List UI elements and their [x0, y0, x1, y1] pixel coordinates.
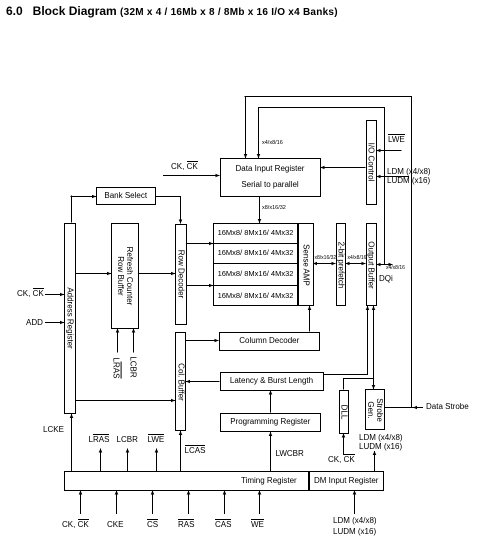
label: LWE above Timing Register: [148, 436, 165, 444]
label: LCBR rotated under Refresh Counter: [126, 354, 140, 380]
label: LCAS: [185, 447, 206, 455]
wire: Address Register to Bank Select: [71, 196, 73, 223]
wire: Programming Register to Latency: [270, 391, 272, 413]
label: LUDM (x16) at I/O Control: [387, 177, 430, 185]
label: CK,CK at Data Input Register: [171, 163, 198, 171]
wire: Col. Buffer to Column Decoder: [186, 340, 219, 342]
label: x8/x16/32 between Sense AMP and prefetch: [315, 256, 337, 261]
wire: 2-bit prefetch to Output Buffer (bidirectional): [346, 263, 366, 265]
wire: LWCBR into Programming Register: [270, 432, 272, 471]
wire: WE into Timing Register: [259, 491, 261, 515]
wire: ADD into Address Register: [45, 322, 64, 324]
wire: Row Decoder to bank row 1: [187, 243, 213, 245]
label: LRAS rotated under Refresh Counter: [109, 354, 123, 382]
wire: CAS into Timing Register: [224, 491, 226, 515]
wire: LWE stub into I/O Control: [377, 150, 402, 152]
wire: Refresh Counter to Row Decoder: [139, 273, 175, 275]
wire: CKE into Timing Register: [116, 491, 118, 515]
label: CS bottom: [147, 521, 158, 529]
wire: DLL to Strobe Gen and Output Buffer: [343, 379, 345, 390]
wire: Strobe Gen to Data Strobe pad: [385, 407, 424, 409]
label: x8/x16/32 below Data Input Register: [262, 206, 286, 212]
wire: LRAS stub above Timing Register: [100, 449, 102, 472]
label: LWE at I/O Control: [388, 136, 405, 144]
wire: I/O Control to Data Input Register: [321, 167, 366, 169]
label: LDM (x4/x8) bottom: [333, 517, 377, 525]
wire: Row Decoder to bank row 3: [187, 285, 213, 287]
wire: Bank Select to Row Decoder: [156, 196, 182, 198]
wire: Data Strobe top loop (outer): [245, 97, 247, 159]
box: I/O Control: [366, 120, 377, 205]
wire: Column Decoder to Sense AMP: [309, 306, 311, 332]
box: Latency & Burst Length: [220, 372, 324, 391]
wire: RAS into Timing Register: [188, 491, 190, 515]
label: LUDM (x16) at Strobe Gen: [359, 443, 402, 451]
label: LCBR above Timing Register: [117, 436, 138, 444]
label: Data Strobe: [426, 403, 469, 411]
box: memory bank array (4 banks): [213, 223, 298, 306]
box: Refresh Counter / Row Buffer: [111, 223, 139, 329]
bank divider 2: [213, 263, 298, 264]
wire: CK,CK into Address Register: [45, 294, 64, 296]
box: Address Register: [64, 223, 76, 415]
label: CK,CK at DLL: [328, 456, 355, 464]
label: LRAS above Timing Register: [89, 436, 110, 444]
label: CAS bottom: [215, 521, 231, 529]
wire: Address Register to Col. Buffer: [76, 400, 175, 402]
wire: Address Register to Refresh Counter: [76, 273, 111, 275]
wire: DM Input Register to Strobe Gen LDM: [374, 451, 376, 471]
wire: LRAS stub into Refresh Counter: [117, 329, 119, 353]
label: CKE bottom: [107, 521, 123, 529]
box: Programming Register: [220, 413, 322, 433]
box: Row Decoder: [175, 224, 187, 325]
wire: CK,CK into DLL: [343, 434, 345, 456]
box: Strobe Gen.: [365, 389, 385, 430]
bank row 3: [213, 263, 298, 285]
wire: LCKE into Address Register: [71, 414, 73, 471]
box: Column Decoder: [219, 332, 321, 351]
wire: Data Input Register to bank array: [259, 197, 261, 224]
wire: Output Buffer to DQi pad (bidirectional): [377, 264, 393, 266]
bank row 1: [213, 223, 298, 243]
label: CK,CK bottom: [62, 521, 89, 529]
box: 2-bit prefetch: [336, 223, 347, 306]
wire: Latency to Output Buffer: [324, 374, 368, 376]
wire: LCBR stub above Timing Register: [127, 449, 129, 472]
wire: Latency to Col. Buffer: [186, 381, 220, 383]
label: ADD: [26, 319, 43, 327]
label: LWCBR: [276, 450, 304, 458]
label: WE bottom: [251, 521, 264, 529]
wire: DQ feedback top loop (inner): [258, 107, 260, 158]
label: LDM (x4/x8) at Strobe Gen: [359, 434, 403, 442]
bank row 2: [213, 243, 298, 263]
label: x4/x8/16 at DQ: [386, 266, 405, 271]
bank divider 3: [213, 285, 298, 286]
bank divider 1: [213, 243, 298, 244]
wire: CK,CK into Timing Register: [80, 491, 82, 515]
box: Data Input Register: [220, 158, 321, 197]
label: LDM (x4/x8) at I/O Control: [387, 168, 431, 176]
box: Sense AMP: [298, 223, 314, 306]
bank row 4: [213, 285, 298, 306]
box: Output Buffer: [366, 223, 377, 306]
wire: CK,CK into Data Input Register: [163, 175, 220, 177]
box: Bank Select: [96, 187, 156, 205]
box: Col. Buffer: [175, 332, 186, 431]
wire: LCAS into Col. Buffer: [180, 431, 182, 471]
wire: LCBR stub into Refresh Counter: [133, 329, 135, 353]
wire: LDM/LUDM into DM Input Register: [354, 491, 356, 515]
box: DM Input Register: [309, 471, 385, 491]
label: LUDM (x16) bottom: [333, 528, 376, 536]
wire: LWE stub above Timing Register: [156, 449, 158, 472]
label: DQi: [379, 275, 393, 283]
wire: LDM/LUDM stub into I/O Control: [377, 176, 410, 178]
label: x4/x8/16 between prefetch and Output Buffer: [348, 256, 367, 261]
label: x4/x8/16 top: [262, 141, 283, 147]
box: Timing Register: [64, 471, 309, 491]
wire: CS into Timing Register: [152, 491, 154, 515]
label: CK,CK at Address Register: [17, 290, 44, 298]
box: DLL: [339, 390, 349, 434]
label: LCKE: [43, 426, 64, 434]
wire: Sense AMP to 2-bit prefetch (bidirectional): [313, 263, 336, 265]
label: RAS bottom: [178, 521, 194, 529]
title: [6, 5, 338, 18]
